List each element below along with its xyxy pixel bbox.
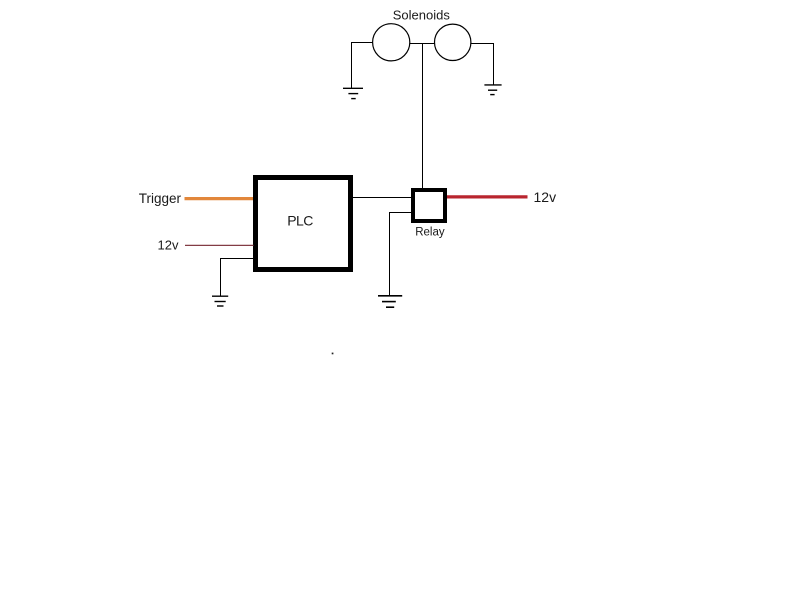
svg-text:Relay: Relay xyxy=(415,227,445,239)
wire relay 12v (red) xyxy=(447,195,528,198)
wire PLC output to relay xyxy=(353,197,412,199)
wire right vertical drop xyxy=(493,43,495,85)
svg-text:12v: 12v xyxy=(158,237,179,252)
svg-text:Solenoids: Solenoids xyxy=(393,8,451,23)
ground G4 xyxy=(378,296,402,307)
wire between solenoids xyxy=(410,43,435,45)
wire Trigger (orange) xyxy=(185,197,254,200)
svg-text:Trigger: Trigger xyxy=(139,191,182,206)
wire left solenoid to ground drop xyxy=(352,42,373,44)
ground G2 xyxy=(484,85,501,95)
svg-text:12v: 12v xyxy=(534,189,557,205)
solenoid L1 xyxy=(373,24,410,61)
solenoid L2 xyxy=(435,24,471,60)
wire solenoid node to relay (vertical) xyxy=(422,43,424,189)
wire 12v input (thin dark red) xyxy=(185,244,254,246)
wire right solenoid to right drop xyxy=(471,43,494,45)
wire PLC ground (L-shape) xyxy=(221,259,254,297)
wire left vertical drop xyxy=(351,42,353,88)
relay K1 xyxy=(413,190,445,221)
PLC box U1 xyxy=(256,178,351,270)
svg-text:PLC: PLC xyxy=(287,213,313,229)
wire relay ground (L-shape) xyxy=(390,213,412,296)
ground G1 xyxy=(343,88,363,98)
stray dot xyxy=(332,353,334,355)
ground G3 xyxy=(212,296,228,306)
